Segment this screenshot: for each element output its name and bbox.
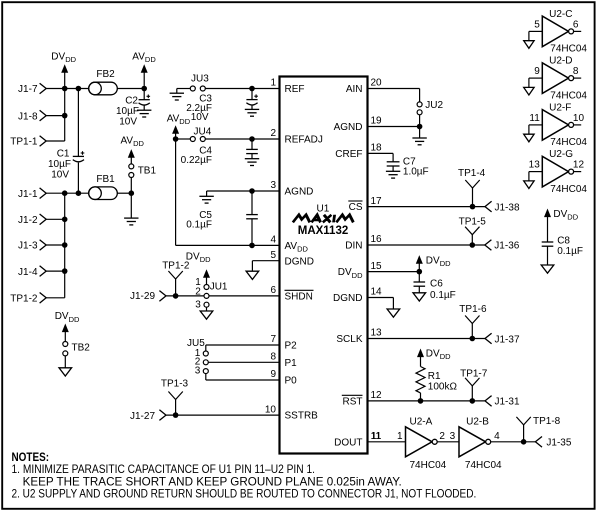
- svg-text:8: 8: [270, 352, 276, 363]
- svg-text:DIN: DIN: [345, 241, 362, 252]
- svg-text:C1: C1: [57, 148, 70, 159]
- svg-text:U2-F: U2-F: [549, 102, 571, 113]
- svg-text:TP1-8: TP1-8: [533, 416, 561, 427]
- svg-text:C8: C8: [557, 235, 570, 246]
- svg-text:18: 18: [371, 143, 383, 154]
- svg-text:10V: 10V: [119, 117, 137, 128]
- svg-text:J1-8: J1-8: [18, 111, 38, 122]
- svg-text:8: 8: [573, 66, 579, 77]
- svg-text:74HC04: 74HC04: [550, 90, 587, 101]
- svg-text:P2: P2: [285, 341, 298, 352]
- svg-text:10: 10: [573, 113, 585, 124]
- svg-text:0.1µF: 0.1µF: [557, 246, 583, 257]
- svg-text:74HC04: 74HC04: [550, 184, 587, 195]
- svg-text:0.1µF: 0.1µF: [186, 220, 212, 231]
- svg-text:5: 5: [534, 19, 540, 30]
- svg-text:74HC04: 74HC04: [550, 44, 587, 55]
- svg-text:2: 2: [439, 431, 445, 442]
- svg-text:JU3: JU3: [191, 73, 209, 84]
- svg-text:J1-36: J1-36: [494, 241, 519, 252]
- svg-text:7: 7: [270, 334, 276, 345]
- svg-text:DGND: DGND: [285, 256, 314, 267]
- svg-text:MAX1132: MAX1132: [298, 225, 349, 237]
- svg-text:9: 9: [534, 66, 540, 77]
- svg-text:3: 3: [195, 365, 201, 376]
- svg-text:74HC04: 74HC04: [410, 460, 447, 471]
- svg-text:TB2: TB2: [72, 342, 91, 353]
- svg-text:REF: REF: [285, 84, 305, 95]
- svg-text:2. U2 SUPPLY AND GROUND RETURN: 2. U2 SUPPLY AND GROUND RETURN SHOULD BE…: [12, 488, 477, 501]
- svg-text:11: 11: [371, 431, 382, 442]
- svg-text:10µF: 10µF: [48, 159, 71, 170]
- svg-text:TP1-5: TP1-5: [459, 217, 487, 228]
- svg-text:10V: 10V: [51, 170, 69, 181]
- svg-text:11: 11: [529, 113, 540, 124]
- svg-text:RST: RST: [343, 397, 363, 408]
- svg-text:TP1-2: TP1-2: [162, 261, 190, 272]
- svg-text:J1-37: J1-37: [495, 334, 520, 345]
- svg-text:6: 6: [573, 19, 579, 30]
- svg-text:100kΩ: 100kΩ: [428, 382, 458, 393]
- svg-text:20: 20: [371, 78, 383, 89]
- svg-text:13: 13: [529, 160, 541, 171]
- svg-text:AIN: AIN: [346, 84, 363, 95]
- svg-text:10: 10: [265, 404, 277, 415]
- svg-text:J1-1: J1-1: [18, 189, 38, 200]
- svg-text:J1-2: J1-2: [18, 215, 38, 226]
- svg-text:16: 16: [371, 234, 383, 245]
- svg-text:U2-C: U2-C: [549, 9, 572, 20]
- svg-text:KEEP THE TRACE SHORT AND KEEP: KEEP THE TRACE SHORT AND KEEP GROUND PLA…: [23, 475, 402, 488]
- svg-text:15: 15: [371, 261, 383, 272]
- svg-text:5: 5: [270, 250, 276, 261]
- svg-text:1: 1: [270, 78, 276, 89]
- svg-text:CREF: CREF: [335, 149, 362, 160]
- svg-text:1: 1: [397, 431, 403, 442]
- svg-text:J1-7: J1-7: [18, 84, 38, 95]
- svg-text:12: 12: [573, 160, 585, 171]
- svg-text:3: 3: [450, 431, 456, 442]
- svg-text:SSTRB: SSTRB: [285, 411, 319, 422]
- svg-text:JU1: JU1: [210, 281, 228, 292]
- svg-text:U2-B: U2-B: [466, 417, 489, 428]
- svg-text:TP1-3: TP1-3: [161, 379, 189, 390]
- svg-text:17: 17: [371, 196, 383, 207]
- svg-text:13: 13: [371, 328, 383, 339]
- svg-text:AGND: AGND: [285, 187, 314, 198]
- svg-text:J1-3: J1-3: [18, 241, 38, 252]
- svg-text:R1: R1: [428, 371, 441, 382]
- svg-text:TP1-1: TP1-1: [10, 137, 38, 148]
- svg-text:TP1-6: TP1-6: [459, 304, 487, 315]
- svg-text:J1-29: J1-29: [130, 291, 155, 302]
- svg-text:C2: C2: [125, 95, 138, 106]
- svg-text:JU2: JU2: [425, 100, 443, 111]
- svg-text:DGND: DGND: [333, 293, 362, 304]
- svg-text:14: 14: [371, 287, 383, 298]
- svg-text:SCLK: SCLK: [336, 334, 362, 345]
- svg-text:74HC04: 74HC04: [550, 137, 587, 148]
- svg-text:1. MINIMIZE PARASITIC CAPACITA: 1. MINIMIZE PARASITIC CAPACITANCE OF U1 …: [12, 463, 316, 476]
- svg-text:J1-35: J1-35: [546, 438, 571, 449]
- svg-text:J1-27: J1-27: [130, 411, 155, 422]
- svg-text:U2-G: U2-G: [549, 149, 573, 160]
- svg-text:AGND: AGND: [334, 122, 363, 133]
- svg-text:12: 12: [371, 390, 383, 401]
- svg-text:U1: U1: [317, 203, 330, 214]
- svg-text:9: 9: [270, 369, 276, 380]
- svg-text:SHDN: SHDN: [285, 292, 313, 303]
- svg-text:TB1: TB1: [138, 166, 157, 177]
- svg-text:U2-D: U2-D: [549, 56, 572, 67]
- svg-text:FB1: FB1: [96, 174, 115, 185]
- svg-text:C6: C6: [430, 279, 443, 290]
- svg-text:TP1-4: TP1-4: [458, 168, 486, 179]
- svg-text:10V: 10V: [191, 112, 209, 123]
- svg-text:0.1µF: 0.1µF: [430, 290, 456, 301]
- svg-text:DOUT: DOUT: [334, 437, 362, 448]
- svg-text:P0: P0: [285, 376, 298, 387]
- svg-text:NOTES:: NOTES:: [12, 451, 50, 464]
- svg-text:CS: CS: [349, 202, 363, 213]
- svg-text:0.22µF: 0.22µF: [181, 155, 212, 166]
- svg-text:19: 19: [371, 116, 383, 127]
- svg-text:JU4: JU4: [194, 126, 212, 137]
- svg-text:74HC04: 74HC04: [465, 460, 502, 471]
- svg-text:6: 6: [270, 285, 276, 296]
- svg-text:TP1-2: TP1-2: [10, 294, 38, 305]
- svg-text:3: 3: [195, 299, 201, 310]
- svg-text:1.0µF: 1.0µF: [403, 167, 429, 178]
- svg-text:3: 3: [270, 180, 276, 191]
- svg-text:REFADJ: REFADJ: [285, 135, 323, 146]
- svg-text:4: 4: [494, 431, 500, 442]
- svg-text:P1: P1: [285, 358, 298, 369]
- svg-text:4: 4: [270, 235, 276, 246]
- svg-text:TP1-7: TP1-7: [460, 369, 488, 380]
- svg-text:J1-31: J1-31: [495, 397, 520, 408]
- svg-text:J1-4: J1-4: [18, 267, 38, 278]
- svg-text:J1-38: J1-38: [495, 203, 520, 214]
- svg-text:U2-A: U2-A: [410, 417, 433, 428]
- svg-text:10µF: 10µF: [116, 106, 139, 117]
- svg-text:FB2: FB2: [96, 69, 115, 80]
- svg-text:2: 2: [270, 128, 276, 139]
